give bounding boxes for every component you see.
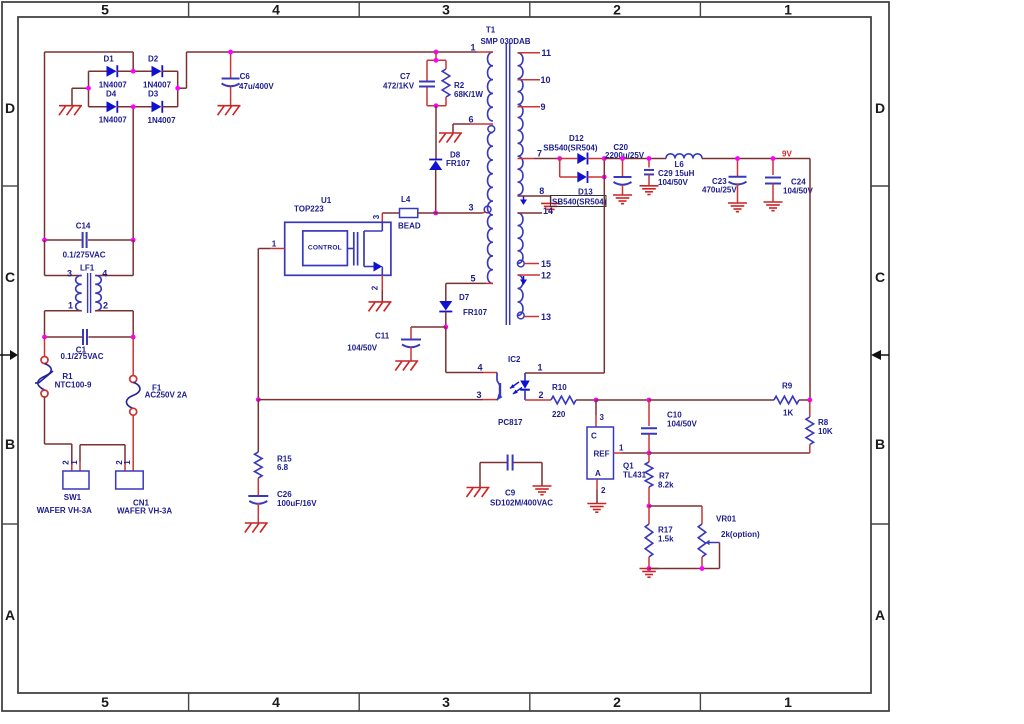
connector SW1 [37,460,92,515]
svg-text:14: 14 [543,206,553,216]
T1 pin 5 stub [486,282,493,284]
resistor R7 [645,453,674,506]
inductor L6 [666,154,702,169]
resistor R15 [255,400,293,478]
svg-text:C6: C6 [240,72,251,81]
sheet fold arrow left [0,350,18,360]
svg-text:2: 2 [371,285,380,290]
svg-text:C9: C9 [505,489,516,498]
svg-text:TL431: TL431 [623,471,647,480]
svg-text:SD102M/400VAC: SD102M/400VAC [490,499,553,508]
svg-text:1: 1 [123,460,132,465]
ground chassis at bridge [59,105,82,107]
svg-text:R17: R17 [658,526,673,535]
T1 pin 7 stub [518,158,535,160]
node bridge output junction [175,86,180,91]
svg-text:SW1: SW1 [64,493,82,502]
svg-text:C24: C24 [791,178,806,187]
node C14 right [131,238,136,243]
connector CN1 [115,460,172,516]
wire left vertical from rail to C14 [44,52,46,240]
wire C14 to LF1 right [132,240,134,276]
svg-text:SB540(SR504): SB540(SR504) [543,144,598,153]
wire primary bus to opto emitter [258,399,483,401]
svg-text:1N4007: 1N4007 [148,116,177,125]
svg-text:104/50V: 104/50V [347,344,377,353]
svg-text:3: 3 [372,214,381,219]
ground earth under C23 [728,202,747,204]
ground earth under R17 [640,568,659,570]
svg-text:6: 6 [468,115,473,125]
wire bridge output to top rail [178,87,187,89]
svg-text:BEAD: BEAD [398,222,421,231]
svg-text:2: 2 [103,300,108,310]
svg-text:0.1/275VAC: 0.1/275VAC [63,250,106,259]
svg-text:6.8: 6.8 [277,463,289,472]
wire D13 branch down [559,159,561,178]
wire F1 to CN1 pin1 [132,415,134,462]
svg-text:SB540(SR504): SB540(SR504) [552,198,607,207]
diode D2 [133,55,178,90]
svg-text:T1: T1 [486,26,496,35]
T1 winding phase arrow upper [523,197,525,200]
svg-text:68K/1W: 68K/1W [454,90,483,99]
wire U1 source pin2 to ground [381,275,383,290]
svg-text:2k(option): 2k(option) [721,530,760,539]
capacitor C26 [248,478,317,523]
svg-text:C29 15uH: C29 15uH [658,169,695,178]
svg-text:5: 5 [101,2,109,18]
resistor R8 [806,400,833,453]
svg-text:C10: C10 [667,411,682,420]
node R7 bottom junction [647,504,652,509]
node bridge AC top junction [131,69,136,74]
svg-text:2: 2 [601,486,606,495]
svg-text:D: D [5,100,15,116]
svg-text:4: 4 [102,269,107,279]
svg-text:NTC100-9: NTC100-9 [55,381,92,390]
svg-text:1: 1 [619,444,624,453]
svg-text:5: 5 [470,274,475,284]
node drain junction at L4 [433,211,438,216]
svg-text:3: 3 [468,203,473,213]
svg-text:9V: 9V [782,150,792,159]
IC Q1 TL431 [587,427,647,480]
wire R1 to SW1 [44,397,46,444]
wire opto LED cathode to R10 [525,399,551,401]
svg-text:7: 7 [537,149,542,159]
T1 secondary winding pins 14-15 [518,213,523,263]
svg-text:C11: C11 [375,332,390,341]
svg-text:D3: D3 [148,90,159,99]
T1 pin 15 stub [524,263,539,265]
capacitor C10 [641,400,697,453]
svg-text:1: 1 [784,694,792,710]
ground earth under C29 [640,185,659,187]
svg-text:1: 1 [470,43,475,53]
svg-text:2: 2 [538,390,543,400]
svg-text:R2: R2 [454,81,465,90]
svg-text:4: 4 [272,2,280,18]
node C24 top [771,156,776,161]
svg-text:D12: D12 [569,134,584,143]
wire LF1 bottom left [45,310,82,312]
T1 pin 9 stub [518,106,541,108]
svg-text:FR107: FR107 [446,159,471,168]
node R17 bottom [647,566,652,571]
svg-text:A: A [595,469,601,478]
svg-text:8: 8 [539,186,544,196]
svg-text:WAFER VH-3A: WAFER VH-3A [117,507,172,516]
svg-text:2: 2 [613,694,621,710]
transformer T1 core [480,26,530,326]
node C7-R2 top [434,50,439,55]
wire bridge bottom node to C14 right [132,107,134,240]
diode D1 [89,55,134,90]
svg-text:4: 4 [477,363,482,373]
wire feedback node to C10 [596,399,649,401]
node bridge ground junction [86,86,91,91]
sheet fold arrow right [871,350,889,360]
T1 winding polarity dot pin3 [484,206,491,213]
node U1 pin1 bus junction [256,397,261,402]
wire TL431 anode to ground [596,479,598,490]
svg-text:104/50V: 104/50V [783,187,813,196]
capacitor C11 [347,327,446,361]
svg-text:1N4007: 1N4007 [99,116,128,125]
svg-text:C7: C7 [400,72,411,81]
svg-text:0.1/275VAC: 0.1/275VAC [61,352,104,361]
svg-text:1.5k: 1.5k [658,535,674,544]
svg-text:D: D [875,100,885,116]
wire AC top-left rail [45,51,134,53]
svg-text:Q1: Q1 [623,462,634,471]
svg-text:R8: R8 [818,418,829,427]
node C29 top [647,156,652,161]
optocoupler IC2 PC817 [476,355,543,427]
diode D4 [89,90,134,125]
svg-text:3: 3 [67,269,72,279]
svg-text:3: 3 [600,413,605,422]
capacitor C6 [222,52,275,106]
svg-text:R10: R10 [552,383,567,392]
wire C7/R2 to D8 [435,106,437,159]
wire junction down to IC2 pin4 [445,327,447,373]
wire R10 to feedback node [576,399,596,401]
svg-text:CONTROL: CONTROL [308,245,342,252]
diode D13 [560,171,605,197]
svg-text:B: B [875,436,885,452]
ground earth at C9 right [533,485,552,487]
diode D8 [429,151,470,171]
wire D7 to junction [445,312,447,328]
wire IC2 pin1 return riser [603,177,605,373]
svg-text:10: 10 [541,75,551,85]
IC U1 TOP223 switcher [285,196,391,275]
svg-text:13: 13 [541,312,551,322]
resistor R9 [774,382,799,418]
node rail at D13 riser [602,156,607,161]
capacitor C9 [480,455,553,508]
svg-text:104/50V: 104/50V [667,420,697,429]
node C1 left [42,335,47,340]
svg-text:D1: D1 [104,55,115,64]
diode D12 [543,134,604,165]
svg-text:L6: L6 [675,160,685,169]
svg-text:12: 12 [541,271,551,281]
diode D7 [439,293,487,317]
svg-text:WAFER VH-3A: WAFER VH-3A [37,506,92,515]
svg-text:C: C [875,269,885,285]
wire AC input down to bridge top node [132,52,134,71]
svg-text:472/1KV: 472/1KV [383,82,415,91]
svg-text:D7: D7 [459,293,470,302]
svg-text:PC817: PC817 [498,418,523,427]
svg-text:C26: C26 [277,490,292,499]
wire bridge left vertical [88,71,90,107]
svg-text:2: 2 [613,2,621,18]
node C20 top [620,156,625,161]
node C7-R2 bottom [434,103,439,108]
T1 secondary winding pins 11-7-8 [518,53,523,195]
T1 pin 13 stub [524,316,539,318]
node D7 output junction [443,325,448,330]
svg-text:220: 220 [552,410,566,419]
svg-text:100uF/16V: 100uF/16V [277,499,317,508]
svg-text:B: B [5,436,15,452]
node D13 junction [602,175,607,180]
node R9-R8 junction [807,398,812,403]
svg-text:VR01: VR01 [716,515,737,524]
node R10 output [594,398,599,403]
svg-text:D4: D4 [106,90,117,99]
capacitor C23 [702,159,747,204]
svg-text:L4: L4 [401,195,411,204]
wire D13 up to rail [603,159,605,178]
T1 pin 6 stub [470,123,493,125]
T1 pin 3 stub [436,212,482,214]
wire R17 to VR01 bottom [649,568,702,570]
node C23 top [735,156,740,161]
svg-text:1: 1 [537,363,542,373]
T1 pin 1 stub [477,51,493,53]
svg-text:1: 1 [68,300,73,310]
wire bridge ground tap [72,87,89,89]
svg-text:4: 4 [272,694,280,710]
capacitor C20 [605,143,645,195]
node pin7 junction [557,156,562,161]
wire SW1 pin1 to CN1 pin2 [79,462,81,471]
capacitor C7 and resistor R2 parallel clamp [383,60,483,106]
ground chassis under C26 [245,522,268,524]
ground earth at T1 pin 8/14 [541,202,560,204]
svg-text:3: 3 [442,694,450,710]
svg-text:R9: R9 [782,382,793,391]
T1 secondary winding pins 12-13 [518,275,523,316]
svg-text:LF1: LF1 [80,263,95,272]
svg-text:11: 11 [542,48,552,58]
svg-text:C: C [591,432,597,441]
node C1 right [131,335,136,340]
wire pin5 down to D7 [445,283,447,301]
svg-text:A: A [5,607,15,623]
svg-text:1: 1 [70,460,79,465]
T1 primary winding pins 1-6 [488,52,493,121]
svg-text:REF: REF [594,450,610,459]
ground earth under C20 [613,194,632,196]
svg-text:9: 9 [541,102,546,112]
svg-text:8.2k: 8.2k [658,481,674,490]
wire 9V output rail [604,158,666,160]
resistor R10 [551,383,576,419]
svg-text:3: 3 [476,390,481,400]
node bridge AC bottom junction [131,104,136,109]
node C6 top [228,50,233,55]
svg-text:47u/400V: 47u/400V [239,82,274,91]
svg-text:IC2: IC2 [508,355,521,364]
svg-text:R7: R7 [659,472,670,481]
svg-text:1N4007: 1N4007 [99,81,128,90]
node C7-R2 upper T [434,58,439,63]
capacitor C14 [45,222,134,260]
svg-text:FR107: FR107 [463,308,488,317]
svg-text:470u/25V: 470u/25V [702,186,737,195]
svg-text:104/50V: 104/50V [658,178,688,187]
svg-text:A: A [875,607,885,623]
svg-text:2200u/25V: 2200u/25V [605,151,645,160]
diode D3 [133,90,178,126]
wire TL431 cathode [595,400,597,415]
wire top rail to C7/R2 [435,52,437,60]
svg-text:1: 1 [272,240,277,249]
T1 pin 14 stub [518,212,543,214]
potentiometer VR01 [649,506,760,569]
ground chassis at C9 left [467,487,490,489]
svg-text:C14: C14 [76,222,91,231]
wire bridge right vertical [177,71,179,107]
svg-text:5: 5 [101,694,109,710]
label frame SB540 for D13 [551,196,607,207]
T1 primary winding pins 3-5 [488,133,493,284]
svg-text:TOP223: TOP223 [294,205,324,214]
svg-text:SMP 030DAB: SMP 030DAB [480,37,530,46]
node VR01 bottom [700,566,705,571]
T1 winding polarity dot pin13 [517,312,524,319]
inductor LF1 common-mode choke [67,263,108,313]
wire C14 to LF1 left [44,240,46,276]
T1 pin 8 stub to ground [518,195,551,197]
ground chassis under C6 [218,105,241,107]
capacitor C24 [765,159,813,203]
T1 winding polarity dot pin6 [488,126,495,133]
capacitor C1 [45,329,134,361]
wire 9V feedback drop [809,159,811,401]
svg-text:3: 3 [442,2,450,18]
ground chassis at T1 pin6 [439,132,462,134]
svg-text:1: 1 [784,2,792,18]
ferrite bead L4 [382,195,435,231]
capacitor C29 [644,159,695,188]
T1 winding polarity dot pin15 [517,260,524,267]
svg-text:C: C [5,269,15,285]
resistor R17 [645,506,674,569]
node C10 top [647,398,652,403]
wire R9 to 9V drop [799,399,810,401]
wire TL431 ref [614,452,623,454]
node C14 left [42,238,47,243]
thermistor R1 [35,337,92,397]
svg-text:1N4007: 1N4007 [143,81,172,90]
ground chassis under C11 [395,360,418,362]
svg-text:10K: 10K [818,427,833,436]
svg-text:1K: 1K [783,409,793,418]
wire U1 control pin1 [270,248,285,250]
T1 pin 12 stub [518,274,541,276]
ground chassis at U1 pin2 [369,301,392,303]
wire REF line to R8 [649,452,810,454]
T1 winding phase arrow lower [523,276,525,280]
T1 pin 10 stub [518,79,541,81]
wire C10 node to R9 [649,399,774,401]
svg-text:AC250V 2A: AC250V 2A [145,391,188,400]
wire D8 to drain node [435,170,437,213]
wire LF1 bottom right [95,310,133,312]
node REF-C10 junction [647,451,652,456]
fuse F1 [126,337,187,415]
T1 pin 11 stub [518,52,541,54]
svg-text:D2: D2 [148,55,159,64]
svg-text:15: 15 [541,259,551,269]
ground earth under TL431 [587,503,606,505]
ground earth under C24 [764,201,783,203]
